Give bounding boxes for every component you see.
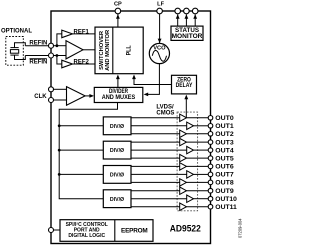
svg-text:OUT10: OUT10 [215, 196, 237, 203]
svg-text:AND MUXES: AND MUXES [102, 95, 136, 101]
svg-text:REF2: REF2 [74, 59, 90, 65]
svg-text:DIV/Ø: DIV/Ø [110, 197, 125, 203]
svg-text:VCO: VCO [153, 45, 166, 51]
svg-text:PLL: PLL [126, 45, 133, 55]
svg-text:DIV/Ø: DIV/Ø [110, 148, 125, 154]
svg-text:OUT2: OUT2 [215, 131, 234, 138]
svg-text:OUT4: OUT4 [215, 147, 234, 154]
svg-text:DIV/Ø: DIV/Ø [110, 173, 125, 179]
svg-text:CLK: CLK [34, 94, 47, 100]
svg-text:07209-004: 07209-004 [238, 218, 243, 238]
svg-text:AD9522: AD9522 [170, 224, 201, 234]
svg-text:REFIN: REFIN [29, 60, 47, 66]
svg-text:CMOS: CMOS [156, 110, 174, 116]
svg-text:DIGITAL LOGIC: DIGITAL LOGIC [68, 233, 105, 239]
svg-text:OUT1: OUT1 [215, 123, 234, 130]
svg-text:OUT5: OUT5 [215, 155, 234, 162]
svg-text:OPTIONAL: OPTIONAL [1, 29, 32, 35]
svg-text:MONITOR: MONITOR [172, 33, 203, 40]
svg-text:OUT6: OUT6 [215, 164, 234, 171]
svg-text:OUT7: OUT7 [215, 172, 234, 179]
svg-text:EEPROM: EEPROM [121, 227, 148, 234]
svg-text:REFIN: REFIN [29, 40, 47, 46]
svg-text:OUT9: OUT9 [215, 188, 234, 195]
svg-text:OUT3: OUT3 [215, 139, 234, 146]
svg-text:CP: CP [114, 1, 122, 7]
svg-text:OUT8: OUT8 [215, 180, 234, 187]
svg-text:DIV/Ø: DIV/Ø [110, 124, 125, 130]
svg-text:SWITCHOVERAND MONITOR: SWITCHOVERAND MONITOR [99, 29, 111, 71]
svg-text:DELAY: DELAY [176, 83, 193, 89]
svg-text:LF: LF [157, 1, 164, 7]
svg-text:OUT0: OUT0 [215, 115, 234, 122]
svg-text:REF1: REF1 [74, 29, 90, 35]
svg-text:OUT11: OUT11 [215, 204, 237, 211]
